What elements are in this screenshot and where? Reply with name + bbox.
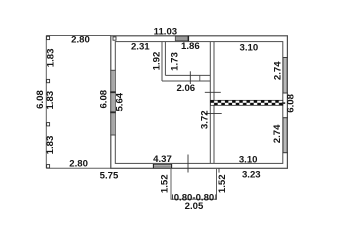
window right-top upper cap — [283, 57, 288, 59]
svg-text:2.80: 2.80 — [69, 159, 88, 170]
square tick left line upper — [47, 79, 50, 82]
window right-bottom lower cap — [283, 152, 288, 154]
window left lower tick — [110, 111, 116, 113]
svg-text:2.74: 2.74 — [273, 61, 284, 80]
svg-text:2.06: 2.06 — [176, 83, 195, 94]
building exterior wall outer line — [111, 36, 288, 169]
flue box right edge tick — [187, 36, 189, 41]
window in right wall upper room — [283, 58, 287, 94]
annex boundary top line — [46, 35, 111, 37]
tick on right wall at stove level — [282, 102, 285, 104]
porch outline — [171, 168, 217, 199]
svg-text:1.86: 1.86 — [181, 41, 200, 52]
svg-text:3.23: 3.23 — [242, 169, 261, 180]
door gap bottom edge — [153, 167, 172, 169]
svg-text:1.83: 1.83 — [46, 49, 57, 68]
square tick bottom-left corner — [47, 165, 50, 168]
square tick left line lower — [47, 123, 50, 126]
porch bottom right tick — [215, 194, 217, 199]
window right-top lower cap — [283, 92, 288, 94]
svg-text:1.83: 1.83 — [45, 91, 56, 110]
svg-text:2.74: 2.74 — [272, 124, 283, 143]
flue box in top wall — [175, 36, 188, 41]
door gap left jamb — [152, 164, 154, 168]
annex boundary bottom line — [46, 167, 111, 169]
closet door tick in bottom wall — [189, 71, 191, 84]
svg-text:1.52: 1.52 — [217, 174, 228, 193]
window left bottom cap — [110, 134, 116, 136]
center partition wall left line — [209, 42, 211, 164]
svg-text:6.08: 6.08 — [98, 89, 109, 108]
svg-text:4.37: 4.37 — [153, 154, 172, 165]
window in left wall — [111, 71, 114, 136]
closet left wall inner line — [164, 42, 166, 76]
entrance door gap in bottom wall — [153, 164, 172, 168]
tick on center wall below closet — [205, 91, 221, 93]
door gap middle stripe — [153, 165, 172, 167]
tick below bottom wall at 3.23 start — [218, 168, 220, 172]
closet bottom wall inner line — [165, 74, 210, 76]
svg-text:5.75: 5.75 — [100, 170, 119, 181]
closet door jamb tick — [199, 75, 201, 81]
window left upper tick — [110, 91, 116, 93]
porch bottom left tick — [172, 194, 174, 199]
tick through bottom wall right of door — [187, 155, 189, 173]
stove checkered partition wall — [211, 100, 283, 105]
svg-text:2.31: 2.31 — [131, 42, 150, 53]
square tick at building top-left corner — [113, 37, 116, 40]
window right-bottom upper cap — [283, 117, 288, 119]
center partition wall right line — [213, 42, 215, 164]
svg-text:5.64: 5.64 — [115, 92, 126, 111]
svg-text:6.08: 6.08 — [286, 93, 297, 112]
window left top cap — [110, 69, 116, 71]
tick on center wall below stove — [205, 112, 222, 114]
square tick top-left corner — [47, 36, 50, 39]
svg-text:1.73: 1.73 — [170, 52, 181, 71]
svg-text:1.52: 1.52 — [160, 174, 171, 193]
closet left wall outer line — [161, 42, 163, 81]
closet bottom wall outer line — [162, 80, 210, 82]
door gap top edge — [153, 163, 172, 165]
svg-text:0.80-0.80: 0.80-0.80 — [174, 192, 215, 203]
svg-text:2.80: 2.80 — [71, 35, 90, 46]
door gap right jamb — [171, 164, 173, 168]
window in right wall lower room — [283, 118, 287, 153]
svg-text:3.72: 3.72 — [200, 110, 211, 129]
annex boundary left dimension line — [45, 36, 47, 169]
svg-text:3.10: 3.10 — [239, 154, 258, 165]
svg-text:3.10: 3.10 — [240, 43, 259, 54]
svg-text:1.83: 1.83 — [45, 136, 56, 155]
svg-text:11.03: 11.03 — [154, 26, 177, 37]
building exterior wall inner line — [115, 42, 282, 164]
svg-text:1.92: 1.92 — [151, 52, 162, 71]
